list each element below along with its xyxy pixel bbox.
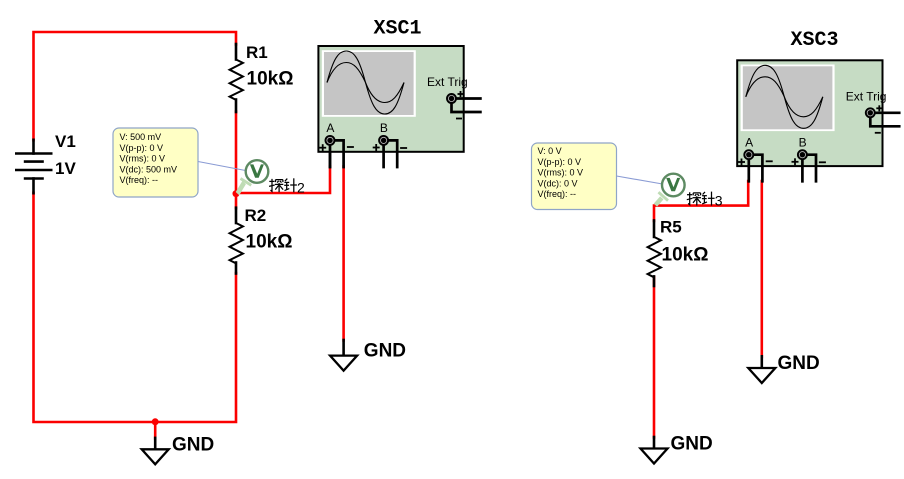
- svg-text:V(rms): 0 V: V(rms): 0 V: [538, 168, 584, 178]
- svg-text:V(p-p): 0 V: V(p-p): 0 V: [120, 143, 164, 153]
- svg-text:V(freq): --: V(freq): --: [120, 175, 159, 185]
- svg-text:2: 2: [297, 179, 305, 195]
- svg-text:V(rms): 0 V: V(rms): 0 V: [120, 154, 166, 164]
- svg-text:XSC3: XSC3: [791, 29, 839, 52]
- svg-text:V(p-p): 0 V: V(p-p): 0 V: [538, 157, 582, 167]
- svg-text:GND: GND: [778, 353, 820, 374]
- svg-text:V(dc): 0 V: V(dc): 0 V: [538, 178, 578, 188]
- svg-text:1V: 1V: [55, 159, 76, 178]
- svg-text:V(dc): 500 mV: V(dc): 500 mV: [120, 164, 178, 174]
- svg-text:XSC1: XSC1: [374, 18, 422, 41]
- svg-text:GND: GND: [172, 434, 214, 455]
- svg-text:R2: R2: [245, 206, 267, 225]
- svg-text:R5: R5: [660, 218, 682, 237]
- svg-text:10kΩ: 10kΩ: [246, 232, 293, 253]
- svg-text:V1: V1: [55, 132, 76, 151]
- svg-text:10kΩ: 10kΩ: [247, 69, 294, 90]
- svg-text:3: 3: [715, 193, 723, 209]
- svg-text:GND: GND: [671, 434, 713, 455]
- svg-text:GND: GND: [364, 341, 406, 362]
- svg-text:R1: R1: [246, 43, 268, 62]
- svg-text:V: 0 V: V: 0 V: [538, 146, 562, 156]
- svg-text:V(freq): --: V(freq): --: [538, 189, 577, 199]
- svg-text:V: 500 mV: V: 500 mV: [120, 132, 162, 142]
- svg-text:10kΩ: 10kΩ: [662, 245, 709, 266]
